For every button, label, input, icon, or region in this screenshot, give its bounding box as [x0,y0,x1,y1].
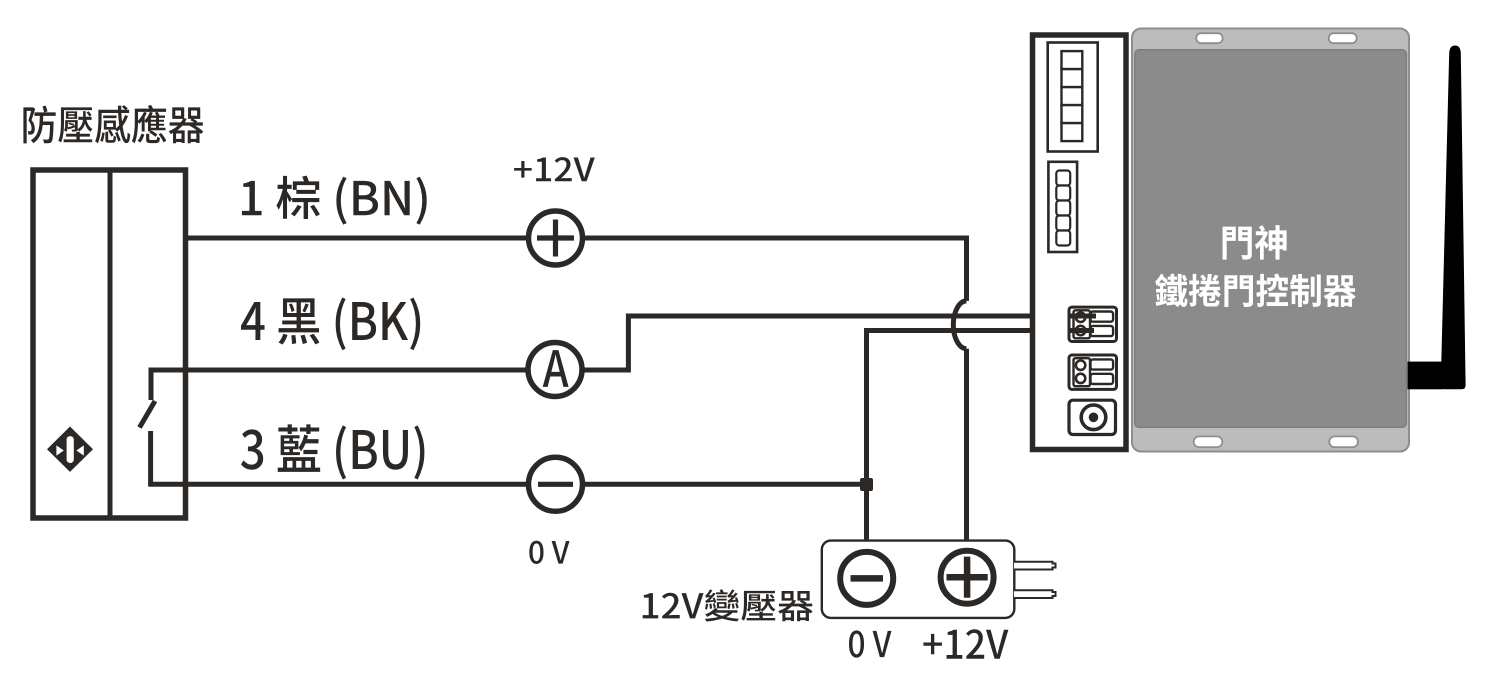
mounting slot top-right [1329,33,1357,43]
+12V label (top) [514,157,595,181]
transformer pin upper [1014,562,1056,570]
sensor internal divider [108,170,113,518]
transformer terminal plus [941,551,994,604]
wire +12V: circle to corner, down to transformer + with hop [583,238,967,549]
mounting slot bottom-left [1194,436,1223,447]
label: 3 藍 (BU) [241,424,424,479]
+12V label (transformer) [923,629,1008,658]
controller enclosure (outer) [1132,29,1409,452]
terminal circle plus (+12V) [529,211,583,265]
antenna arm [1408,362,1444,390]
controller enclosure (inner face) [1135,50,1407,428]
mounting slot top-left [1196,33,1223,43]
sensor lens symbol (diamond) [47,427,93,472]
label: 4 黑 (BK) [241,298,420,351]
0 V label (left) [529,541,569,564]
connector P1 (sensor input, wired) [1069,307,1117,341]
controller terminal panel [1033,35,1127,450]
terminal block J2 (5 pos small) [1048,162,1077,252]
label: 1 棕 (BN) [242,176,427,225]
J2 positions [1056,171,1070,246]
DC power jack [1069,400,1116,434]
mounting slot bottom-right [1329,436,1358,447]
terminal block J1 (5 pos) [1048,43,1098,152]
label: 鐵捲門控制器 (white) [1155,273,1355,307]
terminal circle A (signal) [528,343,582,397]
wire A circle to controller terminal [583,316,1090,370]
transformer T1 body [822,541,1015,618]
wire 3 blue BU: switch bottom to minus circle [149,482,529,487]
wire junction to controller terminal (up) [867,331,1091,485]
label: 門神 (white) [1223,225,1287,259]
wire 1 brown BN: sensor to +12V circle [188,236,528,241]
sensor body S1 [33,170,186,518]
switch SW1 lower contact stub [148,431,153,486]
wire 0V: minus circle to junction [583,482,867,487]
terminal circle minus (0V) [529,457,583,511]
transformer terminal minus [840,552,893,605]
connector P2 [1069,355,1117,389]
switch SW1 upper contact stub [149,368,154,400]
wire junction down to transformer 0V [864,484,869,550]
J1 positions [1062,51,1083,141]
wire ends into P1 [1069,316,1096,331]
A glyph [543,350,569,387]
switch SW1 blade [140,401,156,428]
wire 4 black BK: switch to A circle [149,368,529,373]
label: 防壓感應器 (pressure sensor) [23,105,203,143]
label: 12V變壓器 (12V transformer) [643,589,813,621]
0 V label (transformer) [849,630,892,657]
junction node dot [860,478,873,491]
wire hop over terminal wires [953,301,966,349]
transformer pin lower [1014,590,1056,598]
antenna rod [1441,46,1466,390]
